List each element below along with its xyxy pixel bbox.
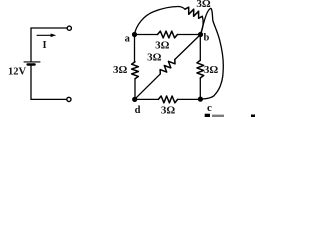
svg-text:3Ω: 3Ω (161, 104, 176, 116)
svg-text:3Ω: 3Ω (113, 64, 128, 76)
svg-text:a: a (125, 33, 131, 44)
svg-text:3Ω: 3Ω (147, 51, 162, 63)
svg-text:3Ω: 3Ω (204, 64, 219, 76)
svg-text:3Ω: 3Ω (196, 0, 211, 10)
svg-text:b: b (203, 32, 209, 43)
svg-text:d: d (135, 105, 141, 116)
svg-text:I: I (43, 40, 47, 51)
svg-text:3Ω: 3Ω (155, 39, 170, 51)
svg-text:c: c (207, 102, 212, 114)
svg-text:12V: 12V (8, 66, 27, 77)
